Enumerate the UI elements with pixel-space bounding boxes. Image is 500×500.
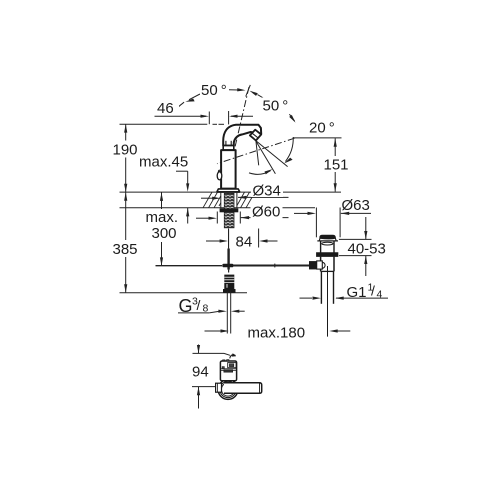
- aerator diamond: [250, 130, 261, 141]
- dim text max.180: [247, 324, 308, 342]
- overlay centerlines: [217, 87, 295, 164]
- svg-text:max.45: max.45: [139, 154, 188, 171]
- 385 bottom reference line: [120, 292, 248, 294]
- curl symbol: [230, 355, 235, 359]
- svg-text:Ø34: Ø34: [253, 183, 281, 200]
- rod coupling tick: [274, 264, 276, 268]
- svg-text:Ø63: Ø63: [342, 197, 370, 214]
- plug skirt: [317, 238, 338, 241]
- dim text 50deg left: [200, 82, 229, 99]
- 46 dimension line: [155, 115, 207, 117]
- clamp nut: [317, 261, 323, 269]
- rod clamp block: [309, 261, 316, 269]
- pop-up knob on body: [217, 172, 222, 180]
- threaded shank: [220, 192, 239, 228]
- deck hatching right: [237, 192, 255, 208]
- 50R leader left: [258, 95, 266, 99]
- svg-text:20 °: 20 °: [309, 120, 335, 137]
- dia60 dimension: [196, 217, 209, 219]
- 40-53 dimension: [339, 238, 372, 240]
- spout outline: [223, 125, 261, 146]
- collar: [223, 146, 234, 151]
- 385 dimension vertical: [125, 192, 127, 293]
- 20deg arc: [285, 137, 293, 162]
- 84 dimension: [228, 229, 230, 249]
- handle swivel arc left segment: [177, 102, 184, 108]
- spout block: [223, 360, 225, 362]
- max45 lower arrow: [187, 208, 189, 224]
- svg-text:190: 190: [113, 142, 138, 159]
- 151 dimension: [334, 138, 336, 191]
- spray line C shallow: [256, 141, 287, 167]
- 190 dimension vertical: [125, 124, 127, 192]
- svg-text:84: 84: [236, 234, 253, 251]
- 50L leader right: [229, 89, 240, 91]
- svg-text:40-53: 40-53: [348, 240, 386, 257]
- 50L leader left: [189, 94, 200, 100]
- svg-text:94: 94: [192, 364, 209, 381]
- dim text dia34: [251, 183, 283, 200]
- lower body: [321, 257, 334, 272]
- dim text max.45: [138, 154, 188, 171]
- svg-text:max.: max.: [146, 209, 179, 226]
- pop-up rod thin extension: [228, 229, 230, 248]
- svg-text:/: /: [371, 283, 375, 299]
- svg-text:G1: G1: [347, 284, 367, 301]
- svg-text:/: /: [197, 297, 201, 313]
- base flange: [217, 189, 240, 192]
- aerator inner line: [252, 133, 258, 138]
- max180 dimension: [205, 330, 222, 332]
- svg-text:max.180: max.180: [248, 325, 306, 342]
- upper neck: [321, 241, 334, 252]
- 46 extension lines: [208, 112, 210, 125]
- svg-text:4: 4: [377, 289, 383, 301]
- G3/8: [179, 296, 209, 317]
- rod clamp joint: [222, 264, 233, 268]
- 94 dimension top line: [193, 352, 225, 354]
- supply pipe: [227, 291, 230, 334]
- dim text 151: [323, 156, 349, 174]
- handle swivel arc right segment: [289, 114, 294, 121]
- dim text 84: [235, 234, 254, 251]
- spray swivel arc: [249, 171, 271, 175]
- dia63 dimension: [294, 212, 308, 214]
- dim text 50deg right: [262, 98, 291, 115]
- dim text 46: [155, 100, 179, 117]
- G1 1/4: [347, 282, 383, 302]
- swivel axis dash-dot: [235, 87, 249, 147]
- escutcheon circles: [218, 380, 238, 400]
- dim text dia60: [251, 204, 283, 221]
- svg-text:8: 8: [203, 303, 209, 315]
- dim text 190: [112, 141, 142, 159]
- locking ring: [317, 253, 338, 257]
- dim text max.300: [145, 209, 179, 242]
- dim text 40-53: [347, 240, 387, 257]
- pop-up rod bold: [227, 249, 229, 270]
- dia34 dimension: [201, 197, 213, 199]
- horizontal linkage rod right: [234, 265, 310, 267]
- swivel tick: [246, 85, 251, 97]
- dim text 20deg: [308, 119, 335, 137]
- deck hatching left: [203, 192, 221, 208]
- svg-text:50 °: 50 °: [263, 98, 289, 115]
- G3/8 nipple: [223, 275, 236, 293]
- svg-text:50 °: 50 °: [201, 82, 227, 99]
- dim text 94: [191, 364, 209, 381]
- 20deg dash-dot spray axis: [217, 138, 295, 164]
- max45 leader: [176, 170, 188, 172]
- dia63 extension lines: [315, 208, 317, 238]
- lever: [224, 383, 262, 394]
- centerline dash: [213, 123, 218, 125]
- G1-1/4 dimension: [300, 297, 313, 299]
- svg-text:G: G: [179, 296, 193, 316]
- horizontal linkage rod left: [156, 265, 223, 267]
- deck surface line: [120, 191, 342, 193]
- dim text 385: [112, 240, 139, 258]
- body: [221, 150, 236, 189]
- dia60 extension lines: [216, 212, 218, 224]
- plug dome cap: [320, 235, 336, 239]
- 46 arrows: [201, 115, 209, 118]
- svg-text:151: 151: [324, 157, 349, 174]
- dim text dia63: [341, 197, 371, 214]
- shank sleeve lines: [220, 192, 222, 208]
- max300 dimension: [161, 193, 163, 210]
- spray line B steep: [255, 140, 275, 174]
- svg-text:46: 46: [157, 100, 174, 117]
- svg-text:Ø60: Ø60: [252, 204, 280, 221]
- 20deg reference line: [294, 137, 342, 139]
- 50R leader right arrow: [289, 115, 295, 123]
- top reference line: [120, 123, 208, 125]
- 94 dimension bottom line: [192, 386, 218, 388]
- G3/8 underline: [178, 312, 209, 314]
- drain center line: [327, 266, 329, 337]
- left tab: [216, 383, 222, 392]
- neck tube inner lines: [225, 141, 227, 146]
- tailpipe: [320, 271, 322, 303]
- deck bottom line: [120, 207, 316, 209]
- spray line A vertical: [256, 140, 259, 165]
- svg-text:300: 300: [152, 225, 177, 242]
- mounting nut: [220, 208, 239, 212]
- 94 dim arrows: [198, 345, 200, 354]
- svg-text:385: 385: [113, 241, 138, 258]
